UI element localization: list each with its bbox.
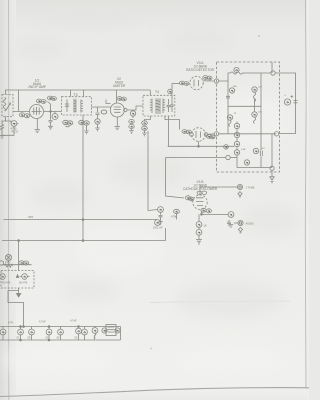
V2 screen cap [130, 111, 135, 116]
diode2 right pin [204, 133, 208, 137]
wire diode1 to det box terminal [203, 80, 214, 82]
bus line2 [2, 240, 166, 242]
row cap 2 [18, 329, 24, 335]
circle in box left [0, 274, 5, 280]
det vertical wire mid-right [260, 73, 262, 168]
T4 bottom comps [145, 116, 151, 121]
resistor ovals under T3 [63, 120, 69, 124]
row coil 8 [92, 328, 98, 334]
bottom page edge line [0, 388, 309, 397]
plate bypass cap circle [52, 114, 58, 120]
svg-text:SO-470: SO-470 [19, 282, 28, 285]
capacitor C (T2 bottom) circle [11, 121, 17, 127]
wire V2 plate to T4 [127, 106, 143, 110]
transformer T4 dashed box [143, 95, 175, 116]
det terminal on return2 [226, 155, 230, 159]
row cap 3 [29, 329, 35, 335]
wire diode2 to det box terminal [208, 133, 215, 136]
V2 plate junction [124, 108, 127, 111]
ground below cap [95, 128, 99, 131]
T4 coupling cap column [167, 95, 174, 112]
det inner vertical left [227, 81, 229, 134]
svg-text:22K: 22K [258, 87, 262, 89]
transformer T2 winding [3, 98, 6, 111]
cap pair under T3 right [79, 120, 85, 124]
tube V2 envelope [110, 103, 124, 117]
bottom row right end [120, 327, 122, 341]
row boxed component [106, 325, 116, 336]
det bottom comp [244, 160, 249, 165]
wire bus2 right end up [165, 228, 167, 241]
small circle on return line [224, 145, 229, 150]
diode2 left pin ovals [182, 130, 187, 134]
det top wire with elbow [219, 73, 231, 81]
dashed box power filter [1, 271, 34, 289]
ground below V1 [35, 130, 41, 133]
diode1 right pin ovals [203, 76, 208, 80]
cap left column of cluster [158, 207, 164, 213]
ground below cathode chain [196, 240, 202, 245]
label V3B CATHODE FOLLOWER [183, 180, 218, 191]
diode1 left pin ovals [180, 81, 185, 85]
wire det box to ground [271, 170, 273, 176]
row cap 7 [82, 329, 88, 335]
det box terminal upper-left [214, 79, 218, 83]
wire pin elbow down to plate line [48, 102, 51, 112]
vertical det return riser [166, 158, 184, 199]
chassis ground arrow [16, 291, 20, 298]
row circles flanking box [102, 328, 107, 333]
det return line into box [168, 145, 235, 147]
det coil [234, 67, 239, 72]
ground below det box [270, 177, 274, 183]
V2 grid elbow [106, 100, 111, 104]
svg-text:2ND IF AMP: 2ND IF AMP [28, 85, 46, 89]
label V2 LIMITER [113, 77, 126, 88]
ground below V2 [115, 127, 121, 130]
svg-text:RATIO DETECTOR: RATIO DETECTOR [186, 68, 215, 72]
svg-text:T4: T4 [155, 90, 159, 94]
V3B left pin ovals [185, 196, 190, 200]
ground near audio terminal [238, 228, 242, 233]
wire T2 bottom to resistor [2, 117, 6, 125]
V2 bus drop [116, 90, 118, 103]
V1 pin callout ovals (top) [36, 99, 41, 103]
svg-text:R.CO: R.CO [12, 129, 18, 133]
det second return line [166, 157, 226, 159]
resistor ovals right of V2 [129, 119, 134, 123]
svg-text:4.7K: 4.7K [8, 321, 14, 325]
grid bus drop [18, 90, 20, 112]
circled-digit marks [2, 70, 289, 333]
tube V3B [193, 195, 207, 209]
V3B top pin ovals [197, 191, 202, 194]
det lower resistor chain [234, 123, 239, 128]
ground under T4 comps [142, 133, 146, 136]
arrow mark in power box [16, 275, 18, 278]
tube V3A diode 1 [190, 76, 203, 89]
svg-text:4.7uF: 4.7uF [70, 319, 77, 323]
svg-text:LIMITER: LIMITER [113, 84, 126, 88]
vertical wire from diode1 area down [171, 84, 173, 96]
dirt speck [150, 348, 152, 350]
junction dots on buses [82, 219, 84, 221]
ground below bypass cap [48, 126, 53, 129]
det terminal top right [271, 71, 275, 75]
tube V2 internals [114, 107, 121, 112]
svg-text:4.7uF: 4.7uF [39, 320, 46, 324]
wire V1 cathode to ground [36, 119, 38, 130]
long vertical wire T3 to bus2 [82, 115, 84, 241]
svg-text:22K: 22K [258, 112, 262, 114]
det bottom wires [237, 62, 272, 168]
T3 feed drops from bus [70, 90, 83, 97]
svg-text:OO1 UF: OO1 UF [153, 226, 163, 230]
junction dot under diode2 [198, 145, 200, 147]
row cap 4 [46, 329, 52, 335]
ground under T3 right [84, 131, 88, 134]
svg-text:J TUNE: J TUNE [246, 185, 255, 189]
B+ terminal [237, 184, 242, 189]
wire loop to bottom row [8, 291, 24, 327]
left page edge line [7, 0, 9, 400]
bus1 end component [155, 220, 161, 226]
electrolytic cap (stabilizing) [284, 99, 290, 105]
junction dots bottom row [20, 326, 22, 328]
T4 feed drop from bus [149, 90, 151, 95]
ground [129, 131, 133, 134]
ratio detector dashed box [217, 62, 280, 172]
wire through box down [8, 265, 19, 291]
row cap 1 [0, 329, 6, 335]
det mid column resistor bottom [252, 112, 257, 117]
svg-text:6.8K: 6.8K [241, 149, 246, 151]
faint crease line right [150, 301, 290, 302]
svg-text:AUDIO: AUDIO [246, 221, 254, 225]
wire across cluster [2, 261, 32, 265]
wire down to ground from C [2, 126, 14, 135]
V3B plate wire to B+ terminal [200, 187, 237, 195]
det mid column resistor top [252, 87, 257, 92]
T4 core hatch [156, 98, 161, 114]
oval pair right [19, 261, 24, 265]
T4 secondary [163, 99, 165, 114]
label V3A RATIO DETECTOR [186, 61, 215, 72]
wire V1 plate to T3 [44, 111, 62, 113]
T3 primary [65, 100, 69, 113]
left page edge shading [0, 0, 16, 400]
svg-text:4700: 4700 [5, 262, 11, 265]
cap right of T3 [95, 119, 100, 124]
grid resistor left of V3B [174, 209, 180, 213]
tube V1 envelope [30, 105, 44, 119]
V2 pin callouts top right [117, 97, 122, 101]
output cap right [228, 212, 234, 218]
T4 primary [150, 99, 152, 114]
transformer T2 dashed box [2, 95, 13, 117]
det comp c2 [227, 115, 232, 120]
small circle on left feed wire [0, 261, 4, 265]
transformer T3 dashed box [62, 97, 92, 115]
row cap 5 [58, 329, 64, 335]
row cap 6 [76, 328, 82, 334]
V2 cathode to ground [116, 117, 118, 127]
paper texture [14, 9, 300, 320]
long wire down to V3B region [147, 131, 149, 211]
svg-text:1K: 1K [204, 224, 207, 228]
det cap c1 [229, 88, 234, 93]
svg-text:SO-470: SO-470 [2, 282, 11, 285]
det mid horizontal branch [228, 105, 261, 107]
resistor R left edge [0, 124, 3, 134]
det box terminal mid-left [214, 132, 218, 136]
bottom row top bus [0, 326, 121, 328]
cathode junction and output wire [201, 213, 203, 215]
wire top bus y=90 [6, 90, 151, 95]
wire T3 to V2 grid [91, 106, 110, 108]
wire diode1 coupling [172, 83, 180, 85]
tube V1 internals [32, 107, 42, 115]
ground below left resistor [0, 134, 5, 139]
paper speck [258, 35, 260, 37]
det mid horizontal wire [219, 133, 277, 135]
top edge smudge [40, 0, 180, 7]
transformer T2 slug arrow [6, 103, 11, 111]
svg-text:470: 470 [28, 215, 33, 219]
T3 secondary [81, 100, 83, 113]
fuse circle component [5, 254, 11, 260]
resistor below fuse [5, 264, 13, 267]
bus B+ line1 [4, 219, 158, 221]
vertical from bus2 to B+ cluster [18, 241, 20, 265]
det terminal mid-right [274, 132, 278, 136]
V3B cathode pin ovals [201, 208, 206, 212]
tube V3A diode 2 [192, 128, 206, 142]
ground near B+ terminal [238, 192, 242, 197]
cathode resistor chain below V3B [196, 222, 202, 228]
wire diode2 cathode down [198, 141, 200, 146]
T3 core hatch [74, 99, 77, 113]
V1 grid callout ovals [19, 113, 24, 117]
wire to electrolytic [275, 73, 295, 134]
right page edge line [304, 0, 307, 388]
V2 grid dark oval [101, 110, 107, 114]
det lower cap [253, 148, 258, 153]
wire T2 to V1 grid [13, 111, 30, 113]
label V1 2ND IF AMP [28, 79, 46, 90]
T4 top label circle [168, 89, 173, 94]
junction dot [50, 111, 52, 113]
wire T4 inner to detector return [168, 116, 170, 146]
circle in box right [22, 274, 28, 280]
wire T4 secondary to diode2 [165, 116, 180, 130]
audio out terminal [238, 220, 243, 225]
det right lower vertical [271, 134, 273, 168]
bottom row bottom bus [0, 339, 121, 341]
det terminal bottom right [270, 166, 274, 170]
